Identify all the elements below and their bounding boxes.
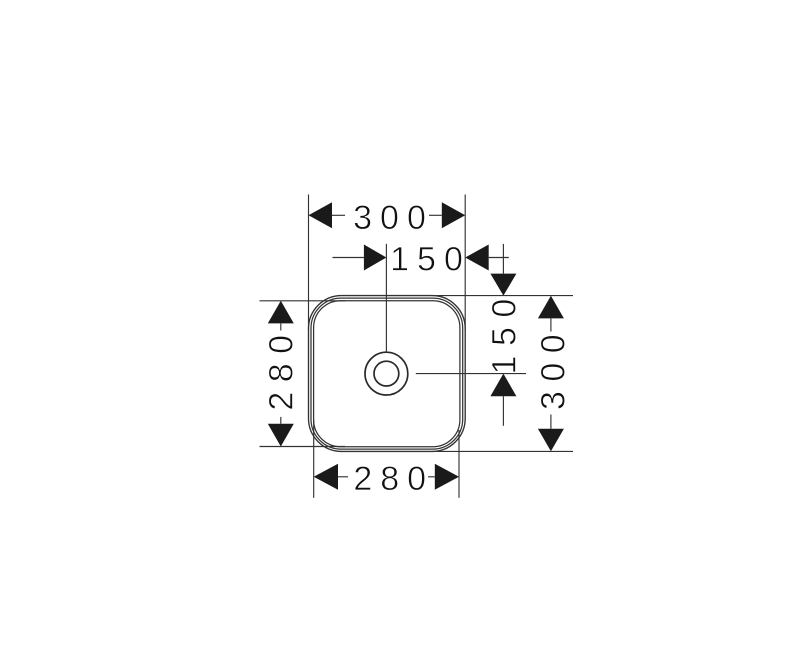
dim 150 right top arrowhead down <box>490 274 516 296</box>
svg-text:300: 300 <box>353 199 434 237</box>
extension line top right long <box>433 295 573 297</box>
dim 150 right bottom tail <box>502 396 504 426</box>
extension line bottom 280 right <box>458 430 460 498</box>
dim 150 top left arrowhead <box>364 245 387 271</box>
dim 280 left bottom arrowhead down <box>268 424 294 447</box>
extension line bottom right long <box>433 450 573 452</box>
svg-text:150: 150 <box>485 289 523 374</box>
svg-text:150: 150 <box>390 241 471 279</box>
dim 300 right bottom arrowhead down <box>538 429 564 451</box>
dim 150 top right tail <box>489 257 509 259</box>
drain leader line horizontal <box>416 373 526 375</box>
dim 280 bottom right arrowhead <box>435 464 459 490</box>
dim 150 right bottom arrowhead up <box>490 374 516 397</box>
dim 280 bottom left stub <box>338 476 348 478</box>
drain outer circle <box>365 352 408 395</box>
basin outer contour <box>309 296 466 452</box>
dim 280 left bottom tail <box>280 417 282 424</box>
basin inner contour <box>314 301 460 447</box>
svg-text:280: 280 <box>353 460 434 498</box>
extension line left 280 top <box>260 300 346 302</box>
dim 300 right top tail <box>550 318 552 331</box>
dim 150 right top tail <box>502 244 504 274</box>
dim 280 bottom right stub <box>428 476 435 478</box>
centerline vertical <box>385 244 387 352</box>
svg-text:280: 280 <box>262 325 300 410</box>
dim 300 right bottom tail <box>550 415 552 429</box>
dim 300 top left arrowhead <box>309 202 333 228</box>
dim 150 top left tail <box>333 257 364 259</box>
dim 300 right top arrowhead up <box>538 296 564 319</box>
drain inner circle <box>374 361 399 386</box>
extension line right of dim 300 top <box>464 195 466 331</box>
basin middle contour <box>311 298 463 449</box>
dim 280 left top arrowhead up <box>268 301 294 324</box>
extension line left 280 bottom <box>260 446 346 448</box>
dim 300 top left stub <box>332 214 345 216</box>
svg-text:300: 300 <box>534 325 572 410</box>
dim 150 top right arrowhead <box>465 245 489 271</box>
dim 280 bottom left arrowhead <box>314 464 338 490</box>
dim 280 left top tail <box>280 323 282 330</box>
extension line left of dim 300 top <box>308 195 310 331</box>
dim 300 top right arrowhead <box>442 202 465 228</box>
dim 300 top right stub <box>429 214 442 216</box>
extension line bottom 280 left <box>313 420 315 498</box>
